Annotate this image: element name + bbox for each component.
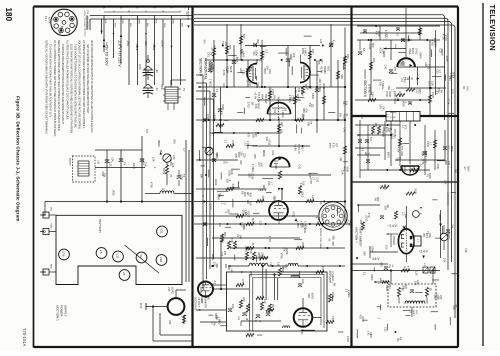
- svg-text:.0015: .0015: [111, 189, 115, 196]
- svg-text:R6: R6: [308, 86, 312, 90]
- svg-text:330K: 330K: [370, 246, 374, 252]
- svg-text:C18: C18: [464, 248, 467, 253]
- svg-text:2.2: 2.2: [213, 281, 217, 285]
- svg-text:3.6 V: 3.6 V: [372, 257, 380, 261]
- svg-text:10K: 10K: [230, 170, 234, 175]
- svg-text:560: 560: [393, 134, 397, 139]
- svg-text:2: 2: [73, 16, 75, 17]
- svg-text:C22: C22: [268, 69, 272, 74]
- svg-text:15K: 15K: [404, 214, 408, 219]
- svg-text:C22: C22: [385, 34, 389, 39]
- svg-text:TUBE SOCKET TERMINALS TO CHASS: TUBE SOCKET TERMINALS TO CHASSIS WITH NO…: [74, 44, 77, 128]
- svg-text:1500: 1500: [431, 92, 435, 98]
- svg-text:10K: 10K: [442, 258, 446, 263]
- svg-text:12K: 12K: [243, 210, 247, 215]
- svg-text:BLK: BLK: [104, 20, 106, 25]
- svg-text:220: 220: [239, 160, 243, 165]
- svg-text:300V: 300V: [438, 214, 442, 221]
- svg-text:220: 220: [248, 201, 252, 206]
- svg-text:SUPPLY: SUPPLY: [64, 305, 68, 317]
- svg-text:1 MEG: 1 MEG: [209, 79, 213, 87]
- svg-text:470K: 470K: [447, 98, 451, 104]
- svg-text:15K: 15K: [387, 85, 391, 90]
- svg-text:12K: 12K: [414, 271, 418, 276]
- svg-text:560: 560: [363, 251, 367, 256]
- svg-text:R209: R209: [162, 168, 166, 175]
- svg-text:2700: 2700: [209, 204, 213, 210]
- svg-text:39K: 39K: [212, 45, 216, 50]
- svg-text:320 V: 320 V: [186, 11, 190, 21]
- svg-text:10K: 10K: [111, 157, 115, 162]
- svg-text:330K: 330K: [393, 91, 397, 97]
- svg-text:LOCK: LOCK: [390, 117, 396, 119]
- svg-text:450V: 450V: [328, 143, 330, 149]
- svg-text:470K: 470K: [150, 182, 154, 188]
- svg-text:C22: C22: [271, 150, 275, 155]
- svg-text:220: 220: [423, 159, 427, 164]
- svg-text:+5.6V: +5.6V: [294, 144, 298, 151]
- svg-text:C41: C41: [426, 64, 430, 69]
- svg-text:LO VOLT: LO VOLT: [197, 297, 200, 307]
- svg-text:820: 820: [223, 232, 227, 237]
- svg-text:470K: 470K: [331, 292, 335, 298]
- svg-text:R40: R40: [466, 86, 469, 91]
- svg-text:1: 1: [66, 10, 68, 11]
- svg-text:820: 820: [380, 262, 384, 267]
- svg-text:1500: 1500: [398, 91, 402, 97]
- svg-text:47K: 47K: [367, 213, 371, 218]
- svg-text:330K: 330K: [254, 50, 258, 56]
- svg-text:1W: 1W: [250, 102, 254, 106]
- svg-text:39K: 39K: [340, 74, 344, 79]
- svg-text:SECTION 7: SECTION 7: [355, 227, 359, 243]
- svg-text:180: 180: [4, 8, 13, 22]
- svg-text:SECTION 8: SECTION 8: [199, 58, 203, 76]
- svg-text:TO -23V: TO -23V: [400, 146, 404, 156]
- svg-text:.047: .047: [239, 234, 243, 240]
- svg-text:TO: TO: [297, 88, 301, 93]
- svg-text:15K: 15K: [301, 279, 305, 284]
- svg-text:VERT: VERT: [412, 310, 414, 316]
- svg-text:C41: C41: [381, 106, 385, 111]
- svg-text:.0015: .0015: [212, 64, 216, 71]
- svg-text:2.2: 2.2: [386, 114, 390, 118]
- svg-text:BRN: BRN: [138, 20, 140, 25]
- svg-text:15K: 15K: [224, 42, 228, 47]
- svg-text:2700: 2700: [403, 77, 407, 83]
- svg-text:100: 100: [317, 217, 321, 222]
- svg-text:.047: .047: [218, 222, 222, 228]
- svg-text:V17: V17: [115, 253, 119, 259]
- svg-text:.047: .047: [248, 81, 252, 87]
- svg-text:SYNC: SYNC: [414, 48, 417, 55]
- svg-text:.005: .005: [253, 153, 257, 159]
- svg-text:OSC: OSC: [326, 66, 329, 72]
- svg-text:39K: 39K: [215, 263, 219, 268]
- svg-text:820: 820: [248, 193, 252, 198]
- svg-text:V15: V15: [167, 287, 170, 292]
- svg-text:V21: V21: [159, 228, 163, 234]
- svg-text:ALL RESISTANCE VALUES IN OHMS: ALL RESISTANCE VALUES IN OHMS K EQUALS 1…: [65, 40, 68, 120]
- svg-text:R6: R6: [284, 108, 288, 112]
- svg-text:2700: 2700: [269, 88, 273, 94]
- svg-text:SECTION 6: SECTION 6: [363, 80, 367, 97]
- svg-text:220: 220: [242, 153, 246, 158]
- svg-text:1500: 1500: [418, 88, 422, 94]
- svg-text:560: 560: [215, 152, 219, 157]
- svg-text:C60A: C60A: [138, 64, 141, 70]
- svg-text:HORIZ: HORIZ: [390, 112, 397, 114]
- svg-text:12K: 12K: [276, 262, 280, 267]
- svg-text:12K: 12K: [151, 157, 155, 162]
- svg-text:820: 820: [401, 61, 405, 66]
- svg-text:2700: 2700: [347, 220, 351, 226]
- svg-text:−2.4 V: −2.4 V: [388, 224, 398, 228]
- svg-text:.0015: .0015: [268, 139, 272, 146]
- svg-text:220: 220: [219, 111, 223, 116]
- svg-text:V6A: V6A: [261, 94, 265, 99]
- svg-text:.005: .005: [228, 44, 232, 50]
- svg-text:12K: 12K: [319, 39, 323, 44]
- svg-text:C22: C22: [416, 280, 420, 285]
- svg-text:220: 220: [301, 113, 305, 118]
- svg-text:NOTES ALL VOLTAGES ARE AS READ: NOTES ALL VOLTAGES ARE AS READ WITH VTVM…: [45, 40, 48, 134]
- svg-text:PWR TRANS: PWR TRANS: [98, 219, 101, 233]
- svg-text:HORIZ: HORIZ: [323, 66, 326, 74]
- svg-text:BLU: BLU: [181, 23, 183, 28]
- svg-text:1500: 1500: [414, 188, 418, 194]
- svg-text:R209: R209: [285, 248, 289, 255]
- svg-text:2700: 2700: [444, 35, 448, 41]
- svg-text:POWER: POWER: [60, 305, 64, 317]
- svg-text:1500: 1500: [159, 149, 163, 155]
- svg-text:C22: C22: [383, 327, 387, 332]
- svg-text:1 MEG: 1 MEG: [304, 48, 308, 56]
- svg-text:1500: 1500: [383, 184, 387, 190]
- svg-text:-22V: -22V: [144, 40, 148, 46]
- svg-text:15K: 15K: [444, 180, 448, 185]
- svg-text:47K: 47K: [403, 125, 407, 130]
- svg-text:V9: V9: [139, 254, 143, 258]
- svg-text:RED: RED: [121, 20, 123, 25]
- svg-text:1 MEG: 1 MEG: [347, 289, 351, 297]
- svg-text:PWR: PWR: [160, 84, 162, 90]
- svg-text:39K: 39K: [260, 254, 264, 259]
- svg-text:820: 820: [376, 197, 380, 202]
- svg-text:C41: C41: [343, 128, 347, 133]
- svg-text:39K: 39K: [200, 174, 204, 179]
- svg-text:2.2: 2.2: [224, 139, 228, 143]
- svg-text:1 MEG: 1 MEG: [218, 317, 222, 325]
- svg-text:1W: 1W: [332, 282, 336, 286]
- svg-text:220: 220: [280, 122, 284, 127]
- svg-text:.047: .047: [455, 304, 459, 310]
- svg-text:.01: .01: [369, 332, 373, 336]
- svg-text:5U4G: 5U4G: [171, 287, 174, 294]
- svg-text:R6: R6: [439, 90, 443, 94]
- svg-text:DEFLECTION YOKE: DEFLECTION YOKE: [319, 228, 321, 249]
- svg-text:VOLTAGE AT 117V AC ALL CONTROL: VOLTAGE AT 117V AC ALL CONTROLS AT NORMA…: [78, 40, 81, 130]
- svg-text:39K: 39K: [332, 235, 336, 240]
- svg-text:250V: 250V: [135, 44, 139, 51]
- svg-text:−2.4 V: −2.4 V: [419, 250, 429, 254]
- svg-text:DAMPER: DAMPER: [204, 298, 207, 308]
- svg-text:.005: .005: [261, 195, 265, 201]
- svg-text:C22: C22: [256, 82, 260, 87]
- svg-text:6800: 6800: [370, 275, 374, 281]
- svg-text:1500: 1500: [237, 152, 241, 158]
- svg-text:5: 5: [58, 33, 60, 34]
- svg-text:V4: V4: [122, 272, 126, 276]
- svg-text:R6: R6: [277, 97, 281, 101]
- svg-text:1500: 1500: [321, 266, 325, 272]
- svg-text:1 MEG: 1 MEG: [246, 141, 250, 149]
- svg-text:C41: C41: [349, 338, 353, 343]
- svg-text:HORIZONTAL: HORIZONTAL: [203, 58, 207, 80]
- svg-text:47K: 47K: [304, 108, 308, 113]
- svg-text:WIDTH: WIDTH: [68, 158, 71, 166]
- svg-text:R6: R6: [386, 205, 390, 209]
- svg-text:VERT SWEEP: VERT SWEEP: [359, 227, 363, 247]
- svg-text:100: 100: [259, 221, 263, 226]
- svg-text:V15: V15: [168, 320, 171, 325]
- svg-text:100: 100: [454, 169, 458, 174]
- svg-text:6BG6: 6BG6: [262, 150, 265, 157]
- svg-text:2.2: 2.2: [261, 56, 265, 60]
- svg-text:RED: RED: [50, 264, 52, 269]
- svg-text:1 MEG: 1 MEG: [304, 221, 308, 229]
- svg-text:330K: 330K: [322, 83, 326, 89]
- svg-text:2.2: 2.2: [260, 163, 264, 167]
- svg-text:560: 560: [251, 218, 255, 223]
- svg-text:117V: 117V: [139, 303, 142, 309]
- svg-text:BRN: BRN: [172, 20, 174, 25]
- svg-text:2700: 2700: [180, 174, 184, 180]
- svg-text:470K: 470K: [268, 236, 272, 242]
- svg-text:1 MEG: 1 MEG: [381, 81, 385, 89]
- svg-text:LESS THAN ONE IN MF NOTES ALL: LESS THAN ONE IN MF NOTES ALL VOLTAGES A…: [69, 44, 72, 133]
- svg-text:470K: 470K: [436, 163, 440, 169]
- svg-text:.0015: .0015: [141, 159, 145, 166]
- svg-text:470K: 470K: [433, 41, 437, 47]
- svg-text:.01: .01: [251, 242, 255, 246]
- svg-text:2.2: 2.2: [363, 272, 367, 276]
- svg-text:12K: 12K: [345, 101, 349, 106]
- svg-text:220: 220: [296, 94, 300, 99]
- svg-text:100: 100: [384, 245, 388, 250]
- svg-text:C41: C41: [383, 65, 387, 70]
- svg-text:V11: V11: [200, 298, 204, 303]
- svg-text:2.2: 2.2: [380, 280, 384, 284]
- svg-text:1 MEG: 1 MEG: [318, 84, 322, 92]
- svg-text:12K: 12K: [272, 197, 276, 202]
- svg-text:470K: 470K: [213, 115, 217, 121]
- svg-text:PL-7: PL-7: [44, 16, 48, 22]
- svg-text:C41: C41: [316, 178, 320, 183]
- svg-text:8: 8: [57, 10, 59, 11]
- svg-text:100: 100: [451, 89, 455, 94]
- svg-text:1W: 1W: [339, 157, 343, 161]
- svg-text:SECTION 5: SECTION 5: [194, 297, 197, 310]
- svg-text:R6: R6: [399, 337, 403, 341]
- svg-text:250V: 250V: [157, 140, 161, 147]
- svg-text:V5: V5: [99, 250, 103, 254]
- svg-text:28-: 28-: [462, 86, 465, 90]
- svg-text:220: 220: [242, 297, 246, 302]
- svg-text:560: 560: [331, 242, 335, 247]
- svg-text:6SN7: 6SN7: [411, 48, 414, 55]
- svg-text:GRN: GRN: [50, 224, 52, 229]
- svg-text:250V: 250V: [152, 44, 156, 51]
- svg-text:6SN7: 6SN7: [311, 293, 314, 300]
- svg-text:.005: .005: [393, 66, 397, 72]
- svg-text:RED: RED: [163, 23, 165, 28]
- svg-text:TO 6.4V: TO 6.4V: [297, 144, 301, 154]
- svg-text:IN RANGE AND ABSORPTION TRAP A: IN RANGE AND ABSORPTION TRAP ADJUSTED FO…: [61, 44, 64, 125]
- svg-text:BLK: BLK: [155, 20, 157, 25]
- svg-text:R209: R209: [132, 163, 136, 170]
- svg-text:BLK: BLK: [146, 23, 148, 28]
- svg-text:68K: 68K: [207, 295, 211, 300]
- svg-text:820: 820: [372, 58, 376, 63]
- svg-text:OUT: OUT: [415, 310, 417, 315]
- svg-text:820: 820: [172, 139, 176, 144]
- svg-text:820: 820: [242, 34, 246, 39]
- svg-text:7: 7: [51, 17, 53, 18]
- svg-text:47K: 47K: [230, 238, 234, 243]
- svg-text:6AU8: 6AU8: [229, 66, 232, 73]
- svg-text:820: 820: [388, 284, 392, 289]
- svg-text:.005: .005: [359, 219, 363, 225]
- svg-text:6800: 6800: [387, 152, 391, 158]
- svg-text:15K: 15K: [371, 92, 375, 97]
- svg-text:820: 820: [242, 223, 246, 228]
- svg-text:C41: C41: [222, 83, 226, 88]
- svg-text:220: 220: [387, 128, 391, 133]
- svg-text:C22: C22: [311, 195, 315, 200]
- svg-text:47K: 47K: [277, 219, 281, 224]
- svg-text:C22: C22: [291, 95, 295, 100]
- svg-text:100: 100: [263, 299, 267, 304]
- svg-text:BLU: BLU: [129, 23, 131, 28]
- svg-text:220: 220: [447, 161, 451, 166]
- svg-text:470K: 470K: [407, 266, 409, 272]
- svg-text:560: 560: [227, 209, 231, 214]
- svg-text:INTLK: INTLK: [48, 17, 50, 24]
- svg-text:.0015: .0015: [377, 30, 381, 37]
- svg-text:+45V: +45V: [296, 221, 300, 228]
- svg-text:.0015: .0015: [235, 56, 239, 63]
- svg-text:360V: 360V: [467, 166, 470, 172]
- svg-text:39K: 39K: [262, 184, 266, 189]
- svg-text:.0015: .0015: [301, 191, 305, 198]
- svg-text:4: 4: [67, 32, 69, 33]
- svg-text:1 MEG: 1 MEG: [251, 164, 255, 172]
- svg-text:330K: 330K: [345, 166, 349, 172]
- svg-text:330K: 330K: [301, 242, 305, 248]
- svg-text:R6: R6: [319, 201, 323, 205]
- svg-text:V17A: V17A: [320, 66, 324, 73]
- svg-text:+325V TO HORIZ OUTPUT: +325V TO HORIZ OUTPUT: [83, 10, 85, 38]
- svg-text:T70-151A: T70-151A: [22, 328, 27, 347]
- svg-text:MEASURED WITH HORIZ AND VERT H: MEASURED WITH HORIZ AND VERT HOLD CONTRO…: [57, 40, 60, 131]
- svg-text:820: 820: [243, 192, 247, 197]
- svg-text:470K: 470K: [292, 211, 296, 217]
- svg-text:AT MINIMUM VOLTAGES MEASURED W: AT MINIMUM VOLTAGES MEASURED WITH HORIZ …: [82, 40, 85, 129]
- svg-text:SET AT CENTER OF HOLD IN RANGE: SET AT CENTER OF HOLD IN RANGE AND ABSOR…: [86, 44, 89, 113]
- svg-text:2.2: 2.2: [265, 49, 269, 53]
- svg-text:39K: 39K: [382, 127, 386, 132]
- svg-text:.01: .01: [169, 174, 173, 178]
- svg-text:6SL7GT: 6SL7GT: [264, 94, 268, 104]
- svg-text:15K: 15K: [430, 81, 434, 86]
- svg-text:12K: 12K: [171, 163, 175, 168]
- svg-text:.0015: .0015: [250, 173, 254, 180]
- svg-text:+5.6V: +5.6V: [254, 92, 258, 100]
- svg-text:39K: 39K: [227, 265, 231, 270]
- svg-text:330K: 330K: [428, 173, 432, 179]
- svg-text:.0015: .0015: [447, 232, 451, 239]
- svg-text:4.5V: 4.5V: [331, 143, 333, 148]
- svg-text:6: 6: [51, 27, 53, 28]
- svg-text:100: 100: [223, 251, 227, 256]
- svg-text:330K: 330K: [221, 104, 225, 110]
- svg-text:-25V: -25V: [126, 40, 130, 46]
- svg-text:C41: C41: [289, 55, 293, 60]
- svg-text:L10: L10: [97, 160, 100, 165]
- svg-text:C41: C41: [298, 164, 302, 169]
- svg-text:RED: RED: [114, 23, 116, 28]
- svg-text:R50: R50: [422, 233, 424, 238]
- svg-text:39K: 39K: [256, 39, 260, 44]
- svg-text:47K: 47K: [247, 133, 251, 138]
- svg-text:12K: 12K: [109, 162, 113, 167]
- svg-text:320V: 320V: [161, 40, 165, 47]
- svg-text:47K: 47K: [241, 279, 245, 284]
- svg-text:10K: 10K: [231, 304, 235, 309]
- svg-text:10K: 10K: [213, 321, 217, 326]
- svg-text:R6: R6: [362, 48, 366, 52]
- svg-text:6800: 6800: [419, 53, 423, 59]
- svg-text:47K: 47K: [231, 140, 235, 145]
- svg-text:MEG: MEG: [450, 146, 453, 152]
- svg-text:+45V TO 100V: +45V TO 100V: [105, 42, 109, 66]
- svg-text:100: 100: [311, 49, 315, 54]
- svg-text:TO 6.4V: TO 6.4V: [257, 92, 261, 102]
- svg-text:R209: R209: [331, 271, 335, 278]
- svg-text:330K: 330K: [201, 285, 205, 291]
- svg-text:15K: 15K: [346, 54, 350, 59]
- svg-text:39K: 39K: [318, 78, 322, 83]
- svg-text:560: 560: [371, 43, 375, 48]
- svg-text:820: 820: [404, 285, 408, 290]
- svg-text:3: 3: [74, 26, 76, 27]
- svg-text:560: 560: [274, 164, 278, 169]
- svg-text:Figure 3B. Deflection Chassis: Figure 3B. Deflection Chassis J-1, Schem…: [16, 96, 21, 222]
- svg-text:6800: 6800: [311, 93, 315, 99]
- svg-text:2700: 2700: [246, 102, 250, 108]
- svg-text:470K: 470K: [279, 253, 283, 259]
- svg-text:V16: V16: [61, 251, 65, 257]
- svg-text:100: 100: [439, 295, 443, 300]
- svg-text:15K: 15K: [302, 181, 306, 186]
- svg-text:R209: R209: [381, 48, 385, 55]
- svg-text:1W: 1W: [338, 113, 342, 117]
- svg-text:1500: 1500: [361, 316, 365, 322]
- svg-text:.0015: .0015: [445, 55, 449, 62]
- svg-text:C41: C41: [331, 316, 335, 321]
- svg-text:SECTION 1: SECTION 1: [56, 305, 60, 321]
